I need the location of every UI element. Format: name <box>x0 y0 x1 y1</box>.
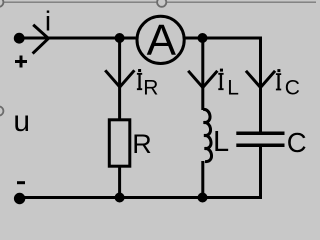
inductor L1 coil <box>203 109 212 161</box>
wire: C branch lower <box>259 145 262 197</box>
arrow I_C on C branch <box>246 71 275 88</box>
label + <box>15 56 27 68</box>
arrow I_L on L branch <box>188 71 217 88</box>
arrow I_R on R branch <box>105 70 134 87</box>
node: top of L branch <box>198 33 208 43</box>
node: bottom of R branch <box>115 193 125 203</box>
selection handle top-left <box>0 0 3 7</box>
wire: top horizontal right segment with corner to capacitor <box>185 38 260 133</box>
wire: L branch lower <box>201 161 204 198</box>
node: top of R branch <box>115 33 125 43</box>
svg-text:R: R <box>143 76 158 99</box>
ammeter U1 circle <box>137 16 184 63</box>
label I_R dot (phasor) <box>138 69 141 72</box>
label I_C letter I <box>276 73 281 90</box>
svg-text:u: u <box>13 105 30 138</box>
label I_R letter I <box>137 73 142 90</box>
selection handle top-center <box>157 0 166 7</box>
svg-text:i: i <box>45 6 51 37</box>
svg-text:R: R <box>132 129 152 159</box>
selection handle left-middle <box>0 106 3 115</box>
label I_L letter I <box>218 73 223 90</box>
label - (minus) <box>17 181 25 184</box>
wire: R branch upper <box>118 38 121 120</box>
svg-text:C: C <box>287 127 307 158</box>
terminal node: top-left <box>14 33 25 44</box>
svg-text:A: A <box>147 16 177 65</box>
svg-text:C: C <box>285 76 300 99</box>
svg-text:L: L <box>227 76 239 99</box>
label I_C dot (phasor) <box>277 69 280 72</box>
node: bottom of L branch <box>198 193 208 203</box>
selection frame top edge <box>0 1 316 3</box>
wire: L branch upper <box>201 38 204 110</box>
wire: bottom horizontal <box>20 196 263 199</box>
terminal node: bottom-left <box>14 193 25 204</box>
capacitor C1 top plate <box>236 131 284 135</box>
label I_L dot (phasor) <box>220 69 223 72</box>
resistor R1 body <box>109 120 130 166</box>
wire: top horizontal left segment <box>19 37 136 40</box>
current arrow i on top wire <box>33 25 49 54</box>
svg-text:L: L <box>213 126 229 158</box>
wire: R branch lower <box>118 166 121 198</box>
capacitor C1 bottom plate <box>236 144 284 148</box>
